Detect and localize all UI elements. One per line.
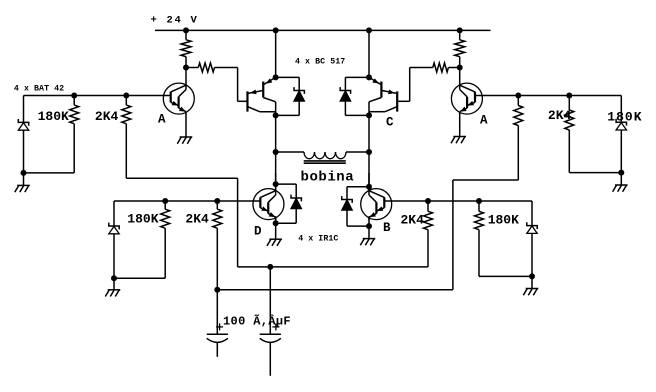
wire left base resistor to darlington base xyxy=(238,68,248,102)
node +24V rail junction right pull-up xyxy=(457,27,463,33)
node right 2K4 top xyxy=(515,93,521,99)
node top-left diode bottom xyxy=(21,170,27,176)
wire rail to left darlington xyxy=(275,30,277,77)
ground transistor D xyxy=(267,216,282,246)
svg-text:B: B xyxy=(383,221,391,235)
node +24V rail junction left darlington xyxy=(273,27,279,33)
wire lower-left input bus xyxy=(114,200,253,202)
ground transistor A left xyxy=(177,114,192,144)
diode clamp B xyxy=(342,187,369,226)
wire right input bus xyxy=(482,95,621,97)
transistor A right driver xyxy=(451,68,482,115)
resistor left pull-up xyxy=(181,30,191,67)
label 180K top-left xyxy=(38,109,69,124)
capacitor C1 100uF xyxy=(207,323,228,356)
diode clamp left high-side xyxy=(276,77,305,115)
diode clamp right high-side xyxy=(340,77,369,115)
node lower-right diode bottom xyxy=(529,273,535,279)
wire coil to transistor B collector xyxy=(368,152,370,187)
node lower-right 2K4 top xyxy=(425,198,431,204)
node +24V rail junction left pull-up xyxy=(183,27,189,33)
ground lower-left xyxy=(105,278,120,296)
wire +24V power rail xyxy=(155,29,491,31)
node left 180K top xyxy=(71,93,77,99)
diode BAT42 top-right xyxy=(616,96,626,173)
svg-text:bobina: bobina xyxy=(301,170,355,186)
label 4 x BAT 42 xyxy=(14,84,64,93)
node right 180K top xyxy=(566,93,572,99)
label bobina xyxy=(301,170,355,186)
wire cross bus 1 to capacitor 2 xyxy=(269,267,271,334)
label B xyxy=(383,221,391,235)
label A left xyxy=(158,112,166,126)
transistor B low-side xyxy=(361,173,392,220)
svg-text:180K: 180K xyxy=(38,109,69,124)
svg-text:180K: 180K xyxy=(488,212,519,227)
wire 2K4 top-right to cross-bus xyxy=(453,180,518,290)
wire cross bus 1 xyxy=(238,266,428,268)
wire cross bus 2 xyxy=(217,289,453,291)
label 100 uF xyxy=(223,313,291,328)
node left 2K4 top xyxy=(123,93,129,99)
node lower-left 2K4 top xyxy=(214,198,220,204)
label 180K lower-right xyxy=(488,212,519,227)
wire right darlington emitter to coil xyxy=(368,115,370,152)
transistor D low-side xyxy=(253,173,284,220)
svg-text:2K4: 2K4 xyxy=(185,211,209,226)
resistor right pull-up xyxy=(455,30,465,67)
svg-text:A: A xyxy=(158,112,166,126)
ground lower-right xyxy=(523,276,538,295)
svg-text:4 x IR1C: 4 x IR1C xyxy=(298,235,338,244)
node lower-right 180K top xyxy=(476,198,482,204)
node top-right diode bottom xyxy=(618,170,624,176)
ground transistor B xyxy=(360,216,375,245)
label 4 x BC 517 xyxy=(295,58,345,67)
transistor right high-side darlington BC517 C xyxy=(366,74,397,118)
svg-text:100 Ã,ÂµF: 100 Ã,ÂµF xyxy=(223,313,291,328)
node right driver collector junction xyxy=(457,65,463,71)
svg-text:4 x BC 517: 4 x BC 517 xyxy=(295,58,345,67)
capacitor C2 100uF xyxy=(260,323,281,375)
node cross bus 2 left xyxy=(214,287,220,293)
wire coil to transistor D collector xyxy=(275,152,277,184)
resistor 180K lower-right xyxy=(475,201,484,276)
node transistor D emitter xyxy=(273,220,279,226)
label 2K4 top-right xyxy=(548,108,572,123)
label 2K4 lower-left xyxy=(185,211,209,226)
resistor 180K top-right xyxy=(565,96,574,173)
wire rail to right darlington xyxy=(368,30,370,77)
svg-text:+ 24 V: + 24 V xyxy=(151,14,199,26)
diode clamp D xyxy=(276,184,302,223)
node lower-left 180K top xyxy=(162,198,168,204)
label C xyxy=(386,116,394,130)
ground top-right xyxy=(613,173,628,192)
inductor bobina xyxy=(276,152,369,163)
label 180K top-right xyxy=(607,109,642,124)
wire right base resistor to darlington base xyxy=(397,68,409,102)
label A right xyxy=(480,113,488,127)
node +24V rail junction right darlington xyxy=(366,27,372,33)
diode BAT42 lower-right xyxy=(527,201,537,276)
wire 2K4 top-left to cross-bus xyxy=(126,178,237,267)
resistor 2K4 lower-left xyxy=(213,201,222,290)
node transistor D collector xyxy=(273,181,279,187)
resistor 2K4 top-left xyxy=(122,96,131,179)
label D xyxy=(254,225,262,239)
wire top-left bottom xyxy=(24,172,75,174)
svg-text:180K: 180K xyxy=(607,109,642,124)
svg-text:2K4: 2K4 xyxy=(401,212,425,227)
svg-text:4 x BAT 42: 4 x BAT 42 xyxy=(14,84,64,93)
svg-text:D: D xyxy=(254,225,262,239)
resistor 2K4 top-right xyxy=(514,96,523,181)
svg-text:180K: 180K xyxy=(127,211,158,226)
node transistor B emitter xyxy=(366,223,372,229)
node left driver collector junction xyxy=(183,65,189,71)
node cross bus 1 to capacitor 2 xyxy=(267,264,273,270)
label 2K4 lower-right xyxy=(401,212,425,227)
resistor 180K top-left xyxy=(70,96,79,173)
resistor 2K4 lower-right xyxy=(424,201,433,267)
ground top-left xyxy=(15,173,30,192)
node coil right xyxy=(366,149,372,155)
node coil left xyxy=(273,149,279,155)
svg-text:C: C xyxy=(386,116,394,130)
svg-text:2K4: 2K4 xyxy=(95,109,119,124)
wire left darlington emitter to coil xyxy=(275,115,277,152)
transistor A left driver xyxy=(163,68,194,115)
wire left input bus xyxy=(24,95,164,97)
label 2K4 top-left xyxy=(95,109,119,124)
wire lower-left bottom xyxy=(114,277,165,279)
node lower-left diode bottom xyxy=(111,275,117,281)
node transistor B collector xyxy=(366,184,372,190)
label 4 x IR1C xyxy=(298,235,338,244)
diode BAT42 top-left xyxy=(18,96,28,173)
wire transistor B base bus xyxy=(392,200,533,202)
resistor 180K lower-left xyxy=(161,201,170,278)
svg-text:A: A xyxy=(480,113,488,127)
transistor left high-side darlington BC517 xyxy=(247,74,278,118)
resistor right base drive xyxy=(410,63,460,72)
wire cross bus 2 to capacitor 1 xyxy=(216,290,218,335)
ground transistor A right xyxy=(451,114,466,143)
label 180K lower-left xyxy=(127,211,158,226)
label +24V xyxy=(151,14,199,26)
wire top-right bottom xyxy=(569,172,621,174)
diode BAT42 lower-left xyxy=(109,201,119,278)
wire lower-right bottom xyxy=(479,275,532,277)
resistor left base drive xyxy=(186,63,238,72)
